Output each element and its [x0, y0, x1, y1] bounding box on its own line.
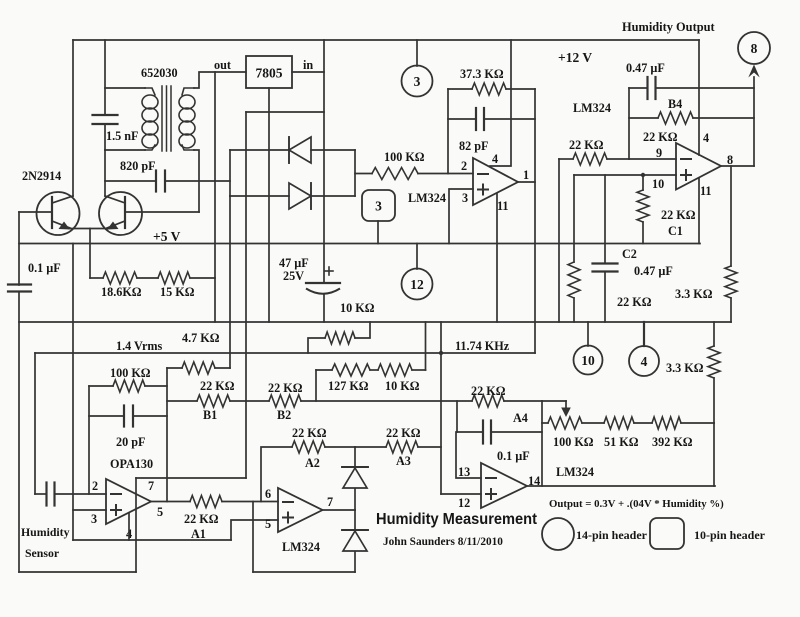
capacitor 0.47 uF B4: [626, 61, 665, 99]
svg-text:3: 3: [414, 74, 421, 89]
svg-text:10 KΩ: 10 KΩ: [340, 301, 375, 315]
svg-text:A1: A1: [191, 527, 206, 541]
wire Q1 base drop: [18, 212, 20, 285]
svg-text:A2: A2: [305, 456, 320, 470]
resistor 22K A1: [184, 496, 222, 542]
wire 100K row: [89, 385, 167, 387]
wire U2 output: [323, 509, 356, 511]
wiper arrow: [561, 401, 571, 417]
wire transformer primary top lead: [105, 87, 145, 89]
potentiometer 100K: [548, 417, 594, 449]
resistor 100K feedback: [110, 366, 151, 392]
pin 9 label: [656, 146, 662, 160]
node 3 header circle: [402, 40, 433, 97]
pin 6 label: [265, 487, 271, 501]
label 1.4 Vrms: [116, 339, 163, 353]
svg-text:+5 V: +5 V: [153, 229, 181, 244]
wire left column x19: [18, 292, 20, 573]
wire pot row: [542, 422, 714, 424]
wire 127K row: [316, 369, 426, 371]
wire pin13 hook: [456, 432, 481, 478]
svg-text:100 KΩ: 100 KΩ: [384, 150, 425, 164]
label Humidity Sensor: [21, 525, 70, 560]
wire pin6 row: [222, 501, 278, 503]
svg-text:11.74 KHz: 11.74 KHz: [455, 339, 510, 353]
svg-text:A4: A4: [513, 411, 528, 425]
svg-text:5: 5: [265, 517, 271, 531]
op-amp U1 LM324: [408, 158, 518, 205]
wire pin11 drop op1: [496, 194, 498, 322]
wire 7805 in: [292, 71, 324, 73]
wire pin2 row op1: [418, 173, 473, 175]
wire x542 feedback column: [541, 401, 543, 486]
node 8 header circle: [738, 32, 770, 64]
resistor 100K input: [372, 150, 425, 180]
svg-text:392 KΩ: 392 KΩ: [652, 435, 693, 449]
wire x73 bias column: [72, 244, 74, 541]
wire 47uF bottom: [323, 294, 325, 322]
svg-text:7805: 7805: [256, 66, 283, 81]
wire secondary bottom lead: [194, 150, 199, 212]
svg-text:22 KΩ: 22 KΩ: [200, 379, 235, 393]
wire x754 column: [753, 77, 755, 166]
legend 10-pin header: [650, 518, 766, 549]
diode D4: [342, 530, 368, 551]
pin 5 label: [157, 505, 163, 519]
wire A4 cap row: [457, 431, 542, 433]
wire 1.4 Vrms line: [35, 353, 535, 494]
wire x535 right side: [534, 89, 536, 353]
svg-text:20 pF: 20 pF: [116, 435, 145, 449]
svg-text:C2: C2: [622, 247, 637, 261]
svg-text:10-pin header: 10-pin header: [694, 528, 766, 542]
wire x167 node column: [166, 368, 168, 502]
wire pin5/4 bottom row: [73, 539, 231, 541]
wire y112 link: [246, 111, 324, 113]
svg-text:4: 4: [492, 152, 498, 166]
pin 1 label: [523, 168, 529, 182]
wire pin5 hook: [231, 520, 278, 540]
wire rectifier out stub: [355, 173, 372, 175]
wire x559 drop: [558, 159, 560, 322]
svg-text:3: 3: [462, 191, 468, 205]
wire x714 column: [713, 423, 715, 486]
wire 18.6K row: [90, 277, 215, 279]
resistor 22K B1: [197, 379, 235, 422]
op-amp OPA130: [106, 457, 153, 524]
wire 10K bridge: [308, 322, 370, 353]
svg-text:18.6KΩ: 18.6KΩ: [101, 285, 142, 299]
wire x246 long vertical: [245, 112, 247, 478]
arrow to header 8: [748, 65, 759, 78]
svg-text:10: 10: [652, 177, 664, 191]
svg-text:B1: B1: [203, 408, 217, 422]
svg-text:11: 11: [497, 199, 509, 213]
svg-text:4: 4: [641, 354, 648, 369]
wire Q2 collector riser x105: [104, 150, 106, 196]
wire opB output: [721, 165, 754, 167]
svg-text:4: 4: [703, 131, 709, 145]
svg-text:8: 8: [727, 153, 733, 167]
wire x448 left side: [447, 89, 449, 174]
label 11.74 KHz: [455, 339, 510, 353]
wire Q2 base: [125, 211, 199, 213]
transistor Q1 2N2914: [37, 192, 80, 235]
svg-text:7: 7: [148, 479, 154, 493]
wire pin12 row: [441, 493, 481, 495]
resistor 18.6K: [101, 272, 142, 299]
wire 820 pF row: [105, 180, 230, 182]
diode D2: [289, 183, 311, 209]
pin 4 label: [126, 527, 132, 541]
resistor 22K A4: [471, 384, 528, 425]
wire op1 output: [518, 181, 535, 183]
capacitor 0.1 uF: [8, 261, 61, 292]
resistor 22K A2: [292, 426, 327, 470]
svg-text:out: out: [214, 58, 231, 72]
label +12 V: [558, 50, 592, 65]
svg-text:A3: A3: [396, 454, 411, 468]
wire 20pF row: [89, 415, 167, 417]
pin 11 label: [700, 184, 712, 198]
wire U3 output row: [527, 485, 715, 487]
svg-text:22 KΩ: 22 KΩ: [643, 130, 678, 144]
svg-text:Sensor: Sensor: [25, 546, 59, 560]
svg-text:LM324: LM324: [408, 191, 446, 205]
svg-text:100 KΩ: 100 KΩ: [110, 366, 151, 380]
capacitor 0.47 uF C2: [593, 247, 673, 278]
resistor 22K pin9: [569, 138, 607, 165]
wire A4 left drop: [456, 401, 458, 432]
svg-text:12: 12: [458, 496, 470, 510]
svg-text:5: 5: [157, 505, 163, 519]
resistor 3.3K lower: [666, 346, 720, 378]
wire x253 ground drop: [253, 502, 355, 573]
capacitor humidity sensor: [47, 483, 55, 506]
resistor 3.3K upper: [675, 266, 737, 301]
pin 5 label: [265, 517, 271, 531]
node in: [303, 58, 313, 72]
wire A2 loop: [261, 447, 355, 502]
svg-text:OPA130: OPA130: [110, 457, 153, 471]
svg-text:47 µF: 47 µF: [279, 256, 309, 270]
svg-text:3: 3: [375, 198, 382, 213]
wire B4 cap row: [629, 87, 754, 89]
wire 4.7K row: [167, 367, 230, 369]
svg-text:7: 7: [327, 495, 333, 509]
pin 13 label: [458, 465, 470, 479]
wire pin3 hook op1: [449, 189, 473, 244]
label Humidity Measurement: [376, 511, 538, 528]
wire OPA output: [151, 501, 190, 503]
svg-text:22 KΩ: 22 KΩ: [661, 208, 696, 222]
wire 3.3K lower leads: [713, 322, 715, 423]
svg-text:25V: 25V: [283, 269, 304, 283]
node junction 11.74 line: [439, 351, 443, 355]
label LM324 top: [573, 101, 611, 115]
svg-text:22 KΩ: 22 KΩ: [184, 512, 219, 526]
svg-text:22 KΩ: 22 KΩ: [617, 295, 652, 309]
svg-text:4.7 KΩ: 4.7 KΩ: [182, 331, 220, 345]
node 4 header circle: [629, 322, 659, 376]
node 10 header circle: [574, 322, 603, 375]
regulator 7805: [246, 56, 292, 88]
wire pin3 wire: [73, 509, 106, 511]
svg-text:22 KΩ: 22 KΩ: [292, 426, 327, 440]
wire x629 feedback left: [628, 88, 630, 159]
svg-text:22 KΩ: 22 KΩ: [471, 384, 506, 398]
wire pin10 row: [574, 174, 676, 176]
svg-text:B2: B2: [277, 408, 291, 422]
svg-text:14-pin header: 14-pin header: [576, 528, 648, 542]
wire x425 riser: [425, 322, 427, 370]
wire wiper line: [542, 400, 566, 402]
diode D3: [342, 467, 368, 488]
svg-text:15 KΩ: 15 KΩ: [160, 285, 195, 299]
wire bus y322: [19, 321, 731, 323]
wire ground loop: [19, 478, 246, 572]
wire transformer primary bottom lead: [105, 149, 145, 151]
svg-text:10: 10: [581, 353, 595, 368]
svg-text:2: 2: [92, 479, 98, 493]
capacitor 82 pF: [459, 108, 488, 153]
svg-text:Output = 0.3V + .(04V * Humidi: Output = 0.3V + .(04V * Humidity %): [549, 498, 724, 510]
op-amp U1B LM324: [676, 143, 721, 190]
svg-text:2N2914: 2N2914: [22, 169, 61, 183]
node 12 header circle: [402, 244, 433, 300]
wire sensor to pin2: [55, 493, 107, 495]
wire D3 bottom: [354, 489, 356, 510]
svg-text:37.3 KΩ: 37.3 KΩ: [460, 67, 504, 81]
wire 3.3K upper leads: [730, 166, 732, 322]
wire pin9 row: [559, 158, 676, 160]
node junction: [641, 173, 645, 177]
wire B row: [167, 400, 542, 402]
svg-text:Humidity Output: Humidity Output: [622, 20, 715, 34]
resistor 37.3K: [460, 67, 506, 95]
capacitor 1.5 nF: [93, 115, 139, 143]
svg-text:John Saunders 8/11/2010: John Saunders 8/11/2010: [383, 536, 503, 548]
svg-text:11: 11: [700, 184, 712, 198]
svg-text:0.1 µF: 0.1 µF: [28, 261, 61, 275]
resistor 22K B2: [268, 381, 303, 422]
resistor 51K: [604, 417, 639, 449]
transistor Q2 2N2914: [99, 192, 142, 235]
resistor 15K: [158, 272, 195, 299]
svg-text:Humidity Measurement: Humidity Measurement: [376, 511, 538, 528]
wire x316 drop: [315, 370, 317, 401]
transformer 652030: [141, 66, 195, 151]
svg-text:8: 8: [751, 41, 758, 56]
svg-text:22 KΩ: 22 KΩ: [268, 381, 303, 395]
pin 7 label: [148, 479, 154, 493]
wire D4 column: [354, 510, 356, 572]
svg-text:Humidity: Humidity: [21, 525, 70, 539]
wire 82pF row: [448, 118, 535, 120]
capacitor 47 uF 25V: [279, 256, 340, 294]
pin 4 label: [492, 152, 498, 166]
op-amp U3 LM324: [481, 463, 594, 508]
resistor 127K: [328, 364, 370, 393]
wire OPA pin4 stem: [128, 513, 130, 540]
node out: [214, 58, 231, 72]
wire x105 riser: [104, 40, 106, 150]
wire 7805 ground stem: [268, 88, 270, 322]
wire +5V rail: [19, 243, 700, 245]
svg-text:22 KΩ: 22 KΩ: [569, 138, 604, 152]
wire left box drop to Q1 collector: [72, 40, 74, 196]
svg-text:C1: C1: [668, 224, 683, 238]
svg-text:0.47 µF: 0.47 µF: [626, 61, 665, 75]
resistor 22K B4: [643, 97, 693, 144]
pin 10 label: [652, 177, 664, 191]
wire x89 to pin2: [88, 386, 90, 494]
svg-text:82 pF: 82 pF: [459, 139, 488, 153]
svg-text:51 KΩ: 51 KΩ: [604, 435, 639, 449]
svg-text:100 KΩ: 100 KΩ: [553, 435, 594, 449]
svg-text:22 KΩ: 22 KΩ: [386, 426, 421, 440]
wire pin4 riser op1: [490, 40, 511, 166]
svg-text:1.4 Vrms: 1.4 Vrms: [116, 339, 163, 353]
wire A3 row: [355, 446, 441, 448]
resistor 22K A3: [386, 426, 421, 468]
pin 14 label: [528, 474, 540, 488]
wire pin11 drop opB: [698, 178, 700, 244]
svg-text:0.47 µF: 0.47 µF: [634, 264, 673, 278]
label 2N2914: [22, 169, 61, 183]
svg-text:LM324: LM324: [573, 101, 611, 115]
svg-text:3.3 KΩ: 3.3 KΩ: [675, 287, 713, 301]
pin 7 label: [327, 495, 333, 509]
pin 4 label: [703, 131, 709, 145]
label John Saunders: [383, 536, 503, 548]
node 3 rounded box: [362, 190, 395, 244]
svg-text:6: 6: [265, 487, 271, 501]
svg-text:10 KΩ: 10 KΩ: [385, 379, 420, 393]
svg-text:LM324: LM324: [282, 540, 320, 554]
svg-text:+12 V: +12 V: [558, 50, 592, 65]
pin 3 label: [462, 191, 468, 205]
label Humidity Output: [622, 20, 715, 34]
wire out junction drop x215: [214, 72, 216, 322]
wire emitters join: [69, 228, 108, 230]
wire C1 leads: [642, 175, 644, 244]
svg-text:1: 1: [523, 168, 529, 182]
svg-text:3.3 KΩ: 3.3 KΩ: [666, 361, 704, 375]
wire x230 drop to 4.7K: [229, 196, 231, 368]
wire sensor left: [35, 493, 46, 495]
svg-text:2: 2: [461, 159, 467, 173]
wire C2 leads: [604, 175, 606, 322]
wire emitter drop x90: [89, 229, 91, 279]
pin 2 label: [92, 479, 98, 493]
svg-text:in: in: [303, 58, 313, 72]
wire secondary top lead to out: [194, 72, 246, 88]
pin 3 label: [91, 512, 97, 526]
svg-text:127 KΩ: 127 KΩ: [328, 379, 369, 393]
wire x324 from top rail: [323, 40, 325, 283]
capacitor 0.1 uF A4: [483, 421, 530, 464]
wire diode box: [230, 150, 355, 196]
svg-text:0.1 µF: 0.1 µF: [497, 449, 530, 463]
svg-text:652030: 652030: [141, 66, 178, 80]
svg-text:LM324: LM324: [556, 465, 594, 479]
pin 2 label: [461, 159, 467, 173]
capacitor 820 pF: [120, 159, 165, 192]
svg-text:13: 13: [458, 465, 470, 479]
wire +12V top rail: [73, 39, 699, 41]
svg-text:3: 3: [91, 512, 97, 526]
pin 12 label: [458, 496, 470, 510]
svg-text:820 pF: 820 pF: [120, 159, 156, 173]
op-amp U2 LM324: [278, 488, 323, 554]
resistor 4.7K: [182, 331, 220, 374]
resistor 10K lower: [378, 364, 420, 393]
wire B4 row: [629, 117, 754, 119]
wire Q1 base: [19, 211, 52, 213]
wire x441 column: [440, 322, 442, 494]
svg-text:1.5 nF: 1.5 nF: [106, 129, 139, 143]
resistor 22K C2col: [568, 262, 652, 309]
diode D1: [289, 137, 311, 163]
wire 22K C2col leads: [573, 175, 575, 322]
pin 11 label: [497, 199, 509, 213]
wire 37.3K row: [448, 88, 535, 90]
resistor 22K C1: [637, 190, 696, 238]
resistor 392K: [652, 417, 693, 449]
svg-text:9: 9: [656, 146, 662, 160]
pin 8 label: [727, 153, 733, 167]
wire pin4 riser opB: [698, 40, 700, 155]
label +5 V: [153, 229, 181, 244]
legend 14-pin header: [542, 518, 648, 550]
svg-text:12: 12: [410, 277, 424, 292]
wire D3 top: [354, 447, 356, 467]
label output formula: [549, 498, 724, 510]
capacitor 20 pF: [116, 406, 145, 450]
resistor 10K upper: [325, 301, 375, 344]
svg-text:B4: B4: [668, 97, 682, 111]
